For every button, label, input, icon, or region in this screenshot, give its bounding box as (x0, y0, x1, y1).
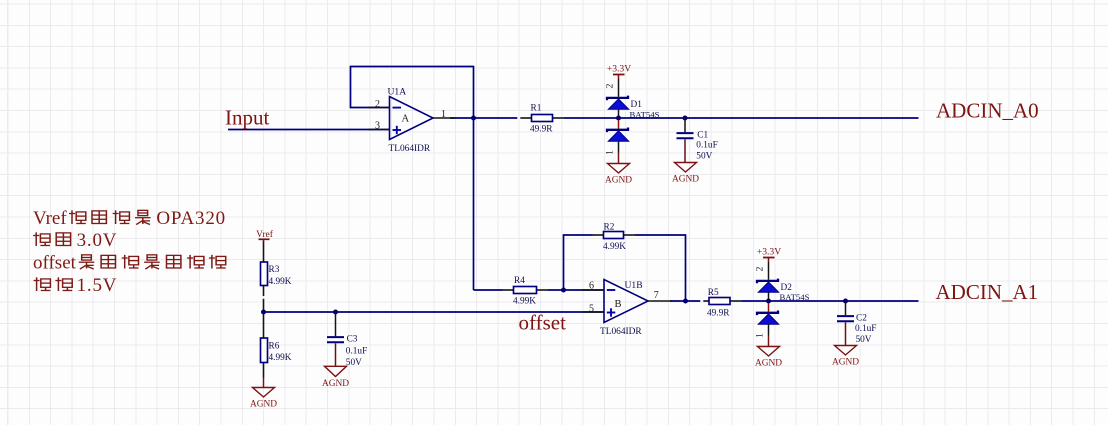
svg-text:AGND: AGND (605, 176, 632, 186)
op-amp U1B section letter B (615, 299, 622, 310)
ground AGND (below R6) (250, 378, 277, 410)
capacitor C3 value 0.1uF (346, 346, 367, 356)
pin number 2 (D2 top, rotated) (756, 266, 766, 271)
diode D1 part BAT54S (630, 109, 660, 119)
svg-text:0.1uF: 0.1uF (855, 324, 876, 334)
node junction U1B output / feedback (683, 299, 688, 304)
resistor R5 (709, 298, 730, 305)
wire U1B output to R5 (670, 300, 709, 302)
resistor R5 designator label (708, 288, 719, 298)
resistor R4 value 4.99K (513, 297, 536, 307)
node junction at U1A output / feedback (471, 116, 476, 121)
resistor R4 designator label (514, 276, 525, 286)
resistor R3 (vertical) (261, 262, 268, 286)
svg-text:TL064IDR: TL064IDR (600, 327, 642, 337)
resistor R6 value 4.99K (269, 353, 292, 363)
svg-text:U1B: U1B (625, 280, 643, 291)
svg-text:R4: R4 (514, 276, 525, 286)
op-amp U1B part name TL064IDR (600, 327, 642, 337)
net label offset (519, 311, 567, 335)
ground AGND (below C2) (832, 346, 859, 368)
svg-text:49.9R: 49.9R (707, 309, 730, 319)
resistor R2 value 4.99K (603, 242, 626, 252)
note text line 3: offset是电阻分压后得 (33, 253, 226, 274)
wire feedback right vertical down to output node (685, 234, 687, 301)
resistor R4 (514, 287, 537, 294)
svg-text:AGND: AGND (832, 358, 859, 368)
wire R1 to ADCIN_A0 (553, 117, 919, 119)
note text line 4: 到的1.5V (34, 275, 118, 296)
wire R2 rail right segment (624, 234, 686, 236)
svg-text:0.1uF: 0.1uF (696, 141, 717, 151)
note text line 1: Vref使用的是OPA320 (33, 208, 226, 229)
wire offset net horizontal (264, 311, 605, 313)
resistor R1 value 49.9R (530, 125, 553, 135)
capacitor C3 (327, 312, 344, 366)
svg-text:BAT54S: BAT54S (630, 109, 660, 119)
wire R5 to ADCIN_A1 (730, 300, 919, 302)
op-amp U1A section letter A (402, 113, 410, 124)
wire R4 right to U1B pin 6 (537, 289, 605, 291)
capacitor C1 (677, 118, 694, 163)
resistor R3 value 4.99K (269, 277, 292, 287)
svg-text:4.99K: 4.99K (269, 277, 292, 287)
wire U1B feedback vertical up from node (563, 235, 565, 290)
resistor R6 (vertical) (261, 338, 268, 363)
resistor R2 (604, 232, 624, 239)
power port +3.3V (for D2) (757, 247, 781, 263)
pin number 1 (U1A output) (441, 109, 446, 120)
diode D2 designator label (781, 283, 793, 293)
ground AGND (below C1) (672, 163, 699, 185)
pin number 2 (U1A inverting) (375, 99, 380, 110)
pin number 1 (D1 bottom, rotated) (606, 150, 616, 155)
svg-text:ADCIN_A1: ADCIN_A1 (936, 280, 1039, 304)
svg-text:TL064IDR: TL064IDR (389, 144, 431, 154)
svg-text:C1: C1 (697, 130, 708, 140)
svg-text:1: 1 (441, 109, 446, 120)
resistor R5 value 49.9R (707, 309, 730, 319)
svg-text:ADCIN_A0: ADCIN_A0 (936, 99, 1039, 123)
capacitor C2 designator label (856, 314, 867, 324)
svg-text:2: 2 (375, 99, 380, 110)
diode D2 (dual schottky BAT54S) (757, 262, 779, 336)
svg-text:4.99K: 4.99K (603, 242, 626, 252)
resistor R1 (532, 115, 553, 122)
svg-text:Input: Input (225, 106, 269, 130)
svg-text:C3: C3 (347, 335, 358, 345)
svg-text:4.99K: 4.99K (269, 353, 292, 363)
net label Input (225, 106, 269, 130)
node junction divider R3/R6 offset (261, 310, 266, 315)
node junction at D2 on A1 wire (766, 299, 771, 304)
svg-text:50V: 50V (346, 358, 362, 368)
node junction R4/R2 at U1B pin6 (561, 288, 566, 293)
svg-text:A: A (402, 113, 410, 124)
pin number 7 (U1B output) (654, 290, 659, 301)
wire to R4 left (474, 289, 514, 291)
svg-text:6: 6 (589, 281, 594, 292)
svg-text:U1A: U1A (388, 87, 407, 98)
wire U1A feedback top rail (350, 66, 474, 68)
op-amp U1A part name TL064IDR (389, 144, 431, 154)
svg-text:1.5V: 1.5V (77, 275, 118, 296)
resistor R1 designator label (531, 103, 542, 113)
svg-text:AGND: AGND (250, 400, 277, 410)
capacitor C2 voltage 50V (856, 335, 872, 345)
svg-text:2: 2 (606, 83, 616, 88)
node junction at C2 on A1 wire (843, 299, 848, 304)
svg-text:OPA320: OPA320 (156, 208, 226, 229)
wire U1A output to R1 (450, 117, 532, 119)
node junction at C3 on offset wire (333, 310, 338, 315)
pin number 2 (D1 top, rotated) (606, 83, 616, 88)
svg-text:R6: R6 (269, 342, 280, 352)
wire U1A feedback left vertical (350, 67, 352, 109)
svg-text:C2: C2 (856, 314, 867, 324)
node junction at C1 on A0 wire (683, 116, 688, 121)
svg-text:3: 3 (375, 121, 380, 132)
op-amp U1B designator U1B (625, 280, 643, 291)
power port +3.3V (top, for D1) (607, 64, 631, 80)
svg-text:7: 7 (654, 290, 659, 301)
capacitor C3 designator label (347, 335, 358, 345)
svg-text:R1: R1 (531, 103, 542, 113)
svg-text:AGND: AGND (672, 175, 699, 185)
svg-text:R2: R2 (604, 223, 615, 233)
wire U1A inverting input (pin 2) horizontal (351, 107, 390, 109)
svg-text:Vref: Vref (33, 208, 67, 229)
resistor R6 designator label (269, 342, 280, 352)
op-amp U1A designator U1A (388, 87, 407, 98)
wire Input net horizontal (228, 129, 390, 131)
svg-text:AGND: AGND (755, 359, 782, 369)
wire feedback/divider vertical x=473.5 (473, 66, 475, 290)
capacitor C1 value 0.1uF (696, 141, 717, 151)
ground AGND (below D1) (605, 153, 632, 186)
svg-text:1: 1 (606, 150, 616, 155)
capacitor C2 value 0.1uF (855, 324, 876, 334)
svg-text:50V: 50V (856, 335, 872, 345)
svg-text:BAT54S: BAT54S (780, 292, 810, 302)
svg-text:4.99K: 4.99K (513, 297, 536, 307)
ground AGND (below D2) (755, 336, 782, 369)
power port Vref (256, 229, 274, 242)
pin number 3 (U1A non-inverting) (375, 121, 380, 132)
capacitor C2 (837, 301, 854, 346)
resistor R3 designator label (269, 265, 280, 275)
wire R2 rail left segment (563, 234, 604, 236)
svg-text:+3.3V: +3.3V (757, 247, 781, 258)
svg-text:offset: offset (519, 311, 567, 335)
svg-text:AGND: AGND (322, 379, 349, 389)
note text line 2: 输出3.0V (33, 230, 117, 251)
node junction at D1 on A0 wire (616, 116, 621, 121)
svg-text:B: B (615, 299, 622, 310)
op-amp U1A body (368, 97, 456, 140)
svg-text:R3: R3 (269, 265, 280, 275)
svg-text:49.9R: 49.9R (530, 125, 553, 135)
wire Vref divider vertical (263, 241, 265, 378)
svg-text:R5: R5 (708, 288, 719, 298)
op-amp U1B body (582, 280, 672, 323)
net label ADCIN_A0 (936, 99, 1039, 123)
resistor R2 designator label (604, 223, 615, 233)
net label ADCIN_A1 (936, 280, 1039, 304)
pin number 6 (U1B inverting) (589, 281, 594, 292)
svg-text:1: 1 (756, 333, 766, 338)
pin number 1 (D2 bottom, rotated) (756, 333, 766, 338)
capacitor C1 voltage 50V (696, 152, 712, 162)
svg-text:3.0V: 3.0V (77, 230, 118, 251)
svg-text:0.1uF: 0.1uF (346, 346, 367, 356)
svg-text:2: 2 (756, 266, 766, 271)
svg-text:5: 5 (589, 303, 594, 314)
svg-text:offset: offset (33, 253, 77, 274)
svg-text:50V: 50V (696, 152, 712, 162)
capacitor C3 voltage 50V (346, 358, 362, 368)
ground AGND (below C3) (322, 366, 349, 389)
pin number 5 (U1B non-inverting) (589, 303, 594, 314)
capacitor C1 designator label (697, 130, 708, 140)
diode D1 (dual schottky BAT54S) (607, 79, 629, 153)
diode D2 part BAT54S (780, 292, 810, 302)
diode D1 designator label (631, 100, 643, 110)
svg-text:+3.3V: +3.3V (607, 64, 631, 75)
